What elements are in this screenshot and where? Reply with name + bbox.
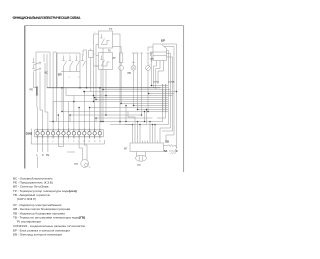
wire V8 — [73, 102, 75, 129]
wire H14 — [62, 111, 161, 113]
svg-text:4: 4 — [52, 141, 53, 143]
switch BC contacts — [32, 58, 41, 71]
wire mid — [138, 53, 143, 115]
svg-text:СОN1: СОN1 — [153, 82, 160, 84]
wire MG16 — [168, 93, 174, 95]
igniter right wires — [160, 44, 177, 150]
wire TV left drop2 — [95, 45, 97, 100]
svg-text:ЕВ - Электрод контроля иониза: ЕВ - Электрод контроля ионизации — [13, 233, 62, 237]
wire MG10 — [162, 113, 164, 122]
wire H5 — [149, 93, 161, 95]
thermostat TV block — [94, 31, 113, 48]
wire H11 — [134, 105, 161, 107]
wire MG12 — [157, 117, 166, 119]
wire V17 — [119, 54, 121, 125]
lamp LU — [113, 47, 124, 104]
connector CON2 strip bottom — [31, 129, 104, 145]
svg-text:7: 7 — [68, 141, 69, 143]
wire V20 — [146, 110, 148, 125]
svg-text:Р) сертификации: Р) сертификации — [17, 220, 41, 224]
selector VP bottom bus — [61, 66, 80, 71]
wire MG9 — [125, 124, 133, 126]
pin numbers — [37, 141, 101, 143]
wire H2 — [47, 87, 161, 89]
pump wires — [67, 139, 87, 161]
wire pin3 up — [45, 63, 48, 129]
wire H9 — [53, 101, 161, 103]
svg-text:СОN2: СОN2 — [26, 134, 33, 136]
wire H13 — [138, 109, 161, 111]
frame right — [183, 26, 185, 172]
svg-text:(100°С Б/Ф Р): (100°С Б/Ф Р) — [17, 197, 36, 201]
wire MG3 — [137, 122, 139, 141]
electrode EV — [164, 145, 177, 148]
thermostat TK block — [96, 53, 113, 70]
svg-text:11: 11 — [89, 141, 91, 143]
button NV — [131, 53, 138, 106]
wire MG8 — [128, 112, 135, 118]
wire V19 — [144, 112, 146, 122]
wire V15 — [102, 90, 104, 122]
wire V4 — [57, 115, 59, 129]
wire MG6 — [152, 125, 154, 141]
wire H4 — [84, 91, 161, 93]
wire H3 — [103, 89, 161, 91]
wire H15 — [70, 114, 142, 116]
svg-text:12: 12 — [94, 141, 96, 143]
wire MG1 — [132, 125, 134, 141]
wire V1 — [61, 88, 63, 112]
switch BC box — [36, 52, 50, 88]
wire H16 — [96, 117, 153, 119]
gas valve MG box — [130, 141, 164, 152]
spark gap BA — [169, 150, 178, 154]
wire V7 — [69, 115, 71, 122]
igniter bottom wires — [154, 61, 164, 90]
wire MG11 — [165, 113, 167, 119]
svg-text:НВ: НВ — [128, 72, 132, 75]
wire V6 — [68, 102, 70, 129]
svg-text:ВП: ВП — [58, 74, 62, 77]
wire TK drops — [94, 66, 107, 122]
wire TV bottom drop — [102, 48, 104, 90]
wire H17 — [49, 121, 163, 123]
wire H8 — [96, 99, 161, 101]
wire H7 — [94, 97, 161, 99]
MG riser wires — [125, 88, 177, 141]
wire MG2 — [134, 117, 136, 141]
wire H12 — [90, 107, 161, 109]
wire fuse to pin1 — [36, 96, 39, 129]
wire TV left drop — [93, 34, 95, 102]
svg-text:2: 2 — [69, 55, 70, 57]
svg-text:2: 2 — [82, 55, 83, 57]
frame left — [24, 26, 26, 169]
svg-text:4: 4 — [76, 55, 77, 57]
wire V11 — [89, 108, 91, 129]
wire V14 — [95, 118, 97, 122]
wire TV right drop — [113, 34, 121, 54]
gas valve coil — [136, 152, 147, 162]
wire V2 — [65, 88, 67, 96]
wire V16 — [105, 96, 107, 116]
wire V5 — [52, 102, 54, 129]
connector CON23 CON24 strip — [161, 84, 168, 113]
wire V3 — [73, 96, 75, 102]
power wires L N PE — [38, 139, 48, 169]
wire VP drop2 — [79, 72, 81, 88]
lamp VR — [146, 53, 151, 112]
wire contact2 to pin2 — [40, 72, 43, 129]
wire V10 — [83, 92, 85, 129]
igniter BR block — [153, 44, 173, 61]
svg-text:13: 13 — [99, 141, 101, 143]
wire MG5 — [149, 122, 151, 141]
wire H1 — [151, 85, 161, 87]
igniter left wires — [148, 47, 153, 62]
mesh vertical wires — [53, 54, 146, 129]
wire V13 — [99, 88, 101, 129]
selector VP contacts row — [62, 56, 85, 66]
wire H18 — [110, 124, 169, 126]
contact pin labels — [63, 55, 83, 79]
TV pin labels — [93, 32, 96, 66]
wires pair right of VP — [83, 50, 87, 88]
frame top — [25, 25, 184, 27]
svg-text:РН: РН — [75, 163, 79, 166]
svg-text:БА: БА — [164, 150, 168, 153]
wires right pair — [150, 53, 153, 86]
svg-text:РС: РС — [138, 164, 142, 167]
wire H10 — [121, 103, 161, 105]
svg-text:РЕ: РЕ — [30, 88, 34, 92]
svg-text:БР: БР — [161, 39, 165, 43]
pump H — [81, 160, 91, 168]
svg-text:ФУНКЦИОНАЛЬНАЯ ЭЛЕКТРИЧЕСКАЯ С: ФУНКЦИОНАЛЬНАЯ ЭЛЕКТРИЧЕСКАЯ СХЕМА — [13, 16, 81, 20]
wire V9 — [78, 108, 80, 129]
selector VP block box — [53, 52, 80, 122]
wire H6 — [66, 95, 161, 97]
svg-text:ТУ: ТУ — [109, 27, 113, 31]
wire MG17 — [168, 95, 173, 97]
small box below TV — [89, 49, 94, 92]
svg-text:ЛУ: ЛУ — [113, 57, 117, 60]
svg-text:N: N — [42, 154, 44, 157]
svg-text:8: 8 — [73, 141, 74, 143]
svg-text:PE: PE — [46, 154, 50, 157]
svg-text:ЕВ: ЕВ — [166, 141, 170, 144]
junction dots — [52, 85, 177, 126]
labels L N PE — [37, 154, 50, 157]
connector pins — [36, 129, 102, 139]
wire MG15 — [168, 91, 177, 93]
mesh horizontal wires — [47, 86, 169, 125]
wire MG13 — [167, 87, 170, 89]
wire MG14 — [168, 89, 171, 91]
fuse PE — [34, 72, 39, 96]
wire VP drop1 — [63, 72, 65, 129]
wire MG4 — [139, 125, 141, 141]
wire V12 — [94, 98, 96, 129]
jumper bracket pins 5-6 — [58, 139, 63, 147]
svg-text:СОNА: СОNА — [168, 81, 175, 84]
wire MG7 — [154, 125, 156, 141]
legend — [13, 176, 85, 236]
wire V18 — [125, 106, 127, 122]
svg-text:1: 1 — [63, 55, 64, 57]
